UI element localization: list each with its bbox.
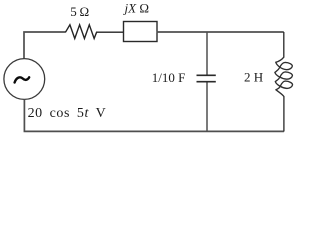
svg-text:5 Ω: 5 Ω [70, 4, 89, 19]
svg-text:1/10 F: 1/10 F [152, 70, 186, 85]
svg-text:2 H: 2 H [244, 70, 263, 85]
svg-text:20 cos 5t V: 20 cos 5t V [28, 106, 107, 121]
svg-text:jX Ω: jX Ω [123, 0, 149, 15]
